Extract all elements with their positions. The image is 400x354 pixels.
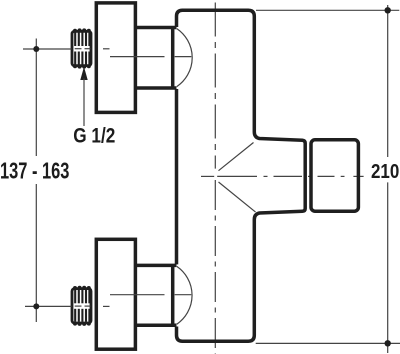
G 1/2 leader line [83, 79, 85, 127]
bottom flange [96, 239, 135, 349]
dim line left top horizontal [23, 48, 72, 50]
body centerline vertical [214, 3, 216, 354]
top thread G1/2 [72, 28, 91, 68]
dim dot right top [385, 7, 391, 13]
cone diagonal upper [219, 143, 254, 171]
dim line right vertical [387, 5, 389, 353]
dim dot left top [33, 46, 39, 52]
dim line left vertical [35, 39, 37, 323]
svg-text:G 1/2: G 1/2 [73, 124, 115, 148]
cone diagonal lower [219, 182, 256, 212]
body left edge middle segment [175, 89, 179, 264]
top dome arc [177, 29, 192, 87]
svg-text:137 - 163: 137 - 163 [0, 157, 69, 183]
dim line left bottom horizontal [25, 305, 72, 307]
spout end piece [311, 140, 358, 211]
bottom union nut cylinder [136, 265, 177, 325]
G 1/2 leader arrow [80, 67, 87, 80]
dim extension top right [256, 9, 399, 11]
bottom thread G1/2 [72, 286, 91, 326]
spout centerline horizontal [201, 175, 364, 177]
dim dot left bottom [33, 303, 39, 309]
svg-text:210: 210 [371, 160, 399, 183]
dim dot right bottom [385, 340, 391, 346]
top union nut cylinder [136, 28, 177, 89]
bottom dome arc [177, 266, 192, 324]
mixer body outline [177, 10, 306, 341]
bottom union centerline [103, 295, 191, 307]
top flange [96, 3, 135, 113]
dim extension bottom right [256, 342, 400, 344]
top union centerline [103, 49, 191, 57]
